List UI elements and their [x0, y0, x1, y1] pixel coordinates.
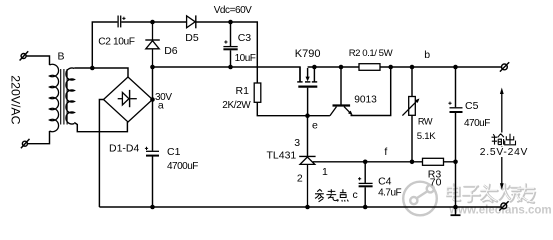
wire bridge left corner to bottom rail: [99, 100, 103, 208]
wire secondary top to bridge top: [74, 68, 128, 77]
main rail from D6 node to K790 drain: [153, 67, 301, 82]
dian2: [338, 189, 349, 201]
svg-text:5.1K: 5.1K: [417, 131, 436, 142]
9013 emitter arrowhead: [348, 111, 353, 116]
node Vdc junction: [228, 20, 233, 25]
resistor R3: [423, 158, 444, 165]
output terminal top-right: [500, 62, 509, 71]
svg-text:470uF: 470uF: [464, 118, 490, 129]
svg-text:D5: D5: [185, 32, 199, 44]
wire secondary bottom to bridge bottom: [74, 122, 127, 132]
node junction 9013 base: [339, 65, 344, 70]
svg-text:a: a: [158, 100, 164, 112]
node junction C3 bottom: [228, 65, 233, 70]
transformer core: [61, 69, 67, 125]
node junction D6 bottom: [150, 65, 155, 70]
resistor R1: [254, 83, 261, 102]
node junction RW bottom: [410, 160, 415, 165]
svg-text:10uF: 10uF: [235, 53, 256, 64]
svg-text:D1-D4: D1-D4: [109, 143, 140, 155]
wire R1 bottom to gate node to 9013 collector: [257, 102, 330, 115]
watermark text dianzifashaoyou: [447, 184, 535, 203]
wire C2 to D5: [121, 21, 186, 23]
capacitor C4: [358, 162, 373, 207]
bridge rectifier D1-D4: [104, 77, 153, 122]
svg-text:220V/AC: 220V/AC: [9, 75, 23, 124]
svg-text:3: 3: [294, 137, 300, 149]
svg-text:C5: C5: [465, 100, 479, 112]
chu: [505, 134, 516, 145]
dian: [448, 185, 461, 201]
svg-text:9013: 9013: [354, 95, 377, 106]
label cankaodian (reference point): [315, 189, 348, 202]
node junction C5 mid: [453, 160, 458, 165]
RW wiper arrowhead: [415, 99, 419, 104]
fa: [482, 185, 498, 202]
node junction secondary top: [90, 66, 95, 71]
svg-text:2: 2: [297, 173, 303, 185]
potentiometer RW: [402, 67, 418, 162]
node junction C4 bottom: [363, 205, 368, 210]
svg-text:Vdc=60V: Vdc=60V: [214, 5, 252, 16]
wire input top to primary: [26, 56, 49, 65]
node junction C4 top: [363, 160, 368, 165]
svg-text:f: f: [384, 146, 387, 158]
svg-text:RW: RW: [418, 117, 433, 127]
svg-text:C4: C4: [378, 176, 392, 188]
svg-text:C3: C3: [238, 32, 252, 44]
svg-text:2.5V-24V: 2.5V-24V: [480, 147, 528, 158]
ground: [451, 207, 461, 215]
svg-text:4.7uF: 4.7uF: [378, 188, 401, 199]
output terminal bottom-right: [499, 201, 508, 210]
diode D5: [187, 15, 231, 28]
diode D6: [145, 22, 160, 67]
node junction top of D6: [150, 20, 155, 25]
node junction C1 bottom: [150, 205, 155, 210]
transformer B primary winding: [50, 64, 59, 131]
transformer B secondary winding: [66, 68, 74, 124]
capacitor C3: [223, 22, 237, 67]
capacitor C5: [448, 102, 462, 112]
svg-text:R2 0.1/ 5W: R2 0.1/ 5W: [349, 48, 394, 59]
kao: [326, 189, 337, 200]
TL431 U1: [299, 156, 315, 207]
svg-text:4700uF: 4700uF: [167, 161, 198, 172]
wire input bottom to primary: [27, 131, 49, 144]
wire 30V node down through C1 to bottom rail: [152, 67, 154, 207]
svg-text:TL431: TL431: [267, 150, 297, 162]
svg-text:c: c: [353, 189, 358, 201]
wire TL431 ref to C5 branch (node f): [313, 161, 456, 163]
MOSFET K790: [297, 67, 317, 116]
input terminal top-left: [20, 51, 29, 60]
capacitor C2: [118, 16, 125, 28]
svg-text:C1: C1: [167, 146, 181, 158]
wire TL431 cathode from gate node: [307, 116, 309, 156]
K790 substrate arrow: [306, 77, 310, 82]
label shuchu (output) backing: [490, 133, 518, 147]
can: [315, 190, 324, 202]
node junction gate: [305, 113, 310, 118]
wire emitter to right of R2: [351, 67, 391, 116]
input terminal bottom-left: [21, 139, 30, 148]
node junction ground: [453, 205, 458, 210]
source rail K790 to output terminal: [308, 66, 502, 68]
svg-text:e: e: [312, 119, 318, 131]
wire Vdc to R1 top (crosses rail): [231, 22, 258, 83]
node b junction RW top: [410, 65, 415, 70]
node a 30V junction: [150, 97, 155, 102]
svg-text:C2 10uF: C2 10uF: [98, 37, 134, 48]
output range arrow: [500, 88, 504, 190]
svg-text:1: 1: [322, 166, 328, 178]
shu: [492, 134, 504, 145]
svg-text:b: b: [424, 49, 430, 61]
zi: [464, 187, 481, 203]
node junction C5 top: [453, 65, 458, 70]
svg-text:2K/2W: 2K/2W: [222, 100, 251, 111]
bottom rail: [99, 206, 501, 208]
shao: [500, 185, 521, 202]
transistor 9013: [330, 67, 352, 116]
svg-text:B: B: [58, 51, 65, 63]
svg-text:K790: K790: [295, 48, 321, 60]
node junction emitter return: [388, 65, 393, 70]
capacitor C1: [145, 147, 159, 156]
label shuchu (output): [492, 134, 516, 145]
resistor R2: [359, 64, 380, 71]
svg-text:D6: D6: [164, 45, 178, 57]
node junction TL431 anode: [305, 205, 310, 210]
node junction K790 source: [312, 65, 317, 70]
watermark logo circle: [402, 181, 437, 216]
svg-text:70: 70: [430, 177, 442, 189]
capacitor C5 branch wire: [455, 67, 457, 207]
you: [518, 185, 535, 203]
wire junction up to C2: [92, 22, 117, 68]
svg-text:R1: R1: [236, 85, 250, 97]
